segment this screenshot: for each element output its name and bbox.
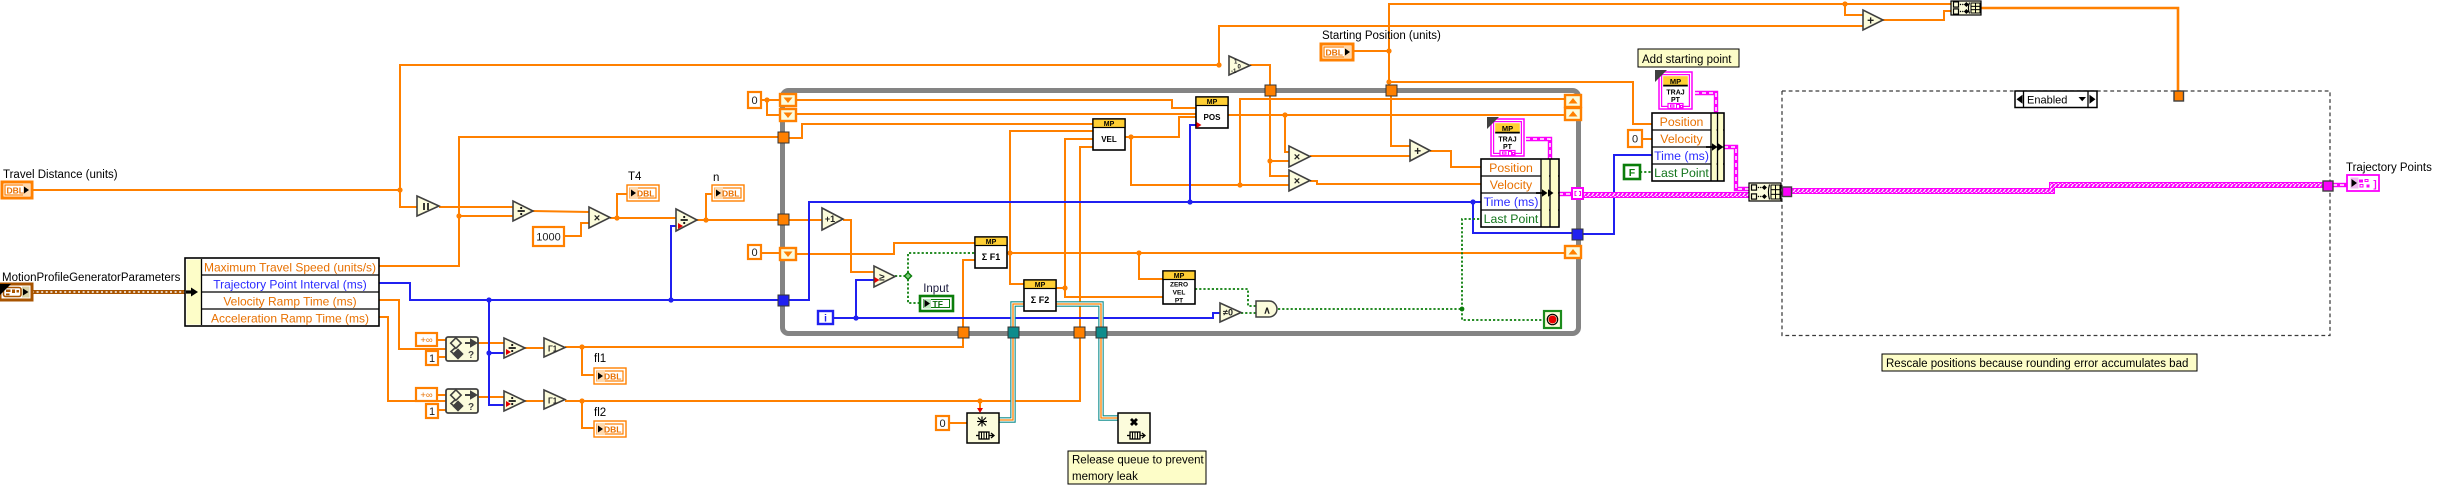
- node junction 0 const: [764, 97, 769, 102]
- abs node: [417, 196, 439, 216]
- svg-text:MP: MP: [986, 239, 997, 246]
- wire fl2 inside loop: [1080, 147, 1093, 327]
- constant 1 (first): [426, 351, 438, 365]
- indicator Trajectory Points: [2347, 175, 2379, 191]
- wire +inf1 to IRC1: [437, 339, 446, 341]
- svg-text:+: +: [1414, 144, 1421, 158]
- node junction sf1a: [1007, 250, 1012, 255]
- wire top y26 to + node: [1219, 26, 1863, 65]
- subvi TrajPt 1: [1491, 119, 1524, 156]
- node junction sp2: [1386, 79, 1391, 84]
- tunnel pink array out: [1572, 188, 1583, 199]
- tunnel sign top: [1265, 85, 1276, 96]
- svg-text:TF: TF: [933, 299, 943, 309]
- svg-text:Trajectory Points: Trajectory Points: [2346, 162, 2432, 174]
- wire SR1 to POS: [796, 100, 1196, 108]
- bundle by name 2 (outside): [1652, 113, 1724, 181]
- wire MaxSpeed from unbundle: [379, 137, 778, 266]
- svg-text:Velocity: Velocity: [1660, 132, 1703, 146]
- wire StartingPosition riser: [1389, 4, 1845, 88]
- wire blue to div2: [671, 226, 676, 300]
- wire div fl1 out: [525, 347, 544, 349]
- obtain queue node: [967, 413, 999, 443]
- wire green down to Input: [908, 279, 920, 303]
- svg-text:DBL: DBL: [604, 372, 621, 382]
- disable structure selector Enabled: [2015, 91, 2097, 108]
- node junction sp1: [1386, 48, 1391, 53]
- svg-text:DBL: DBL: [722, 189, 739, 199]
- svg-text:+1: +1: [825, 214, 835, 224]
- wire n inside loop to +1: [789, 219, 822, 221]
- wire SR3 to SigmaF1: [796, 243, 975, 254]
- wire div2 out n: [697, 219, 778, 221]
- in range and coerce 2: [446, 389, 478, 413]
- wire MaxSpeed to divide: [459, 215, 513, 217]
- release queue node: [1118, 413, 1150, 443]
- wire VEL out down: [1131, 137, 1289, 185]
- divide node n: [676, 209, 697, 231]
- wire fl2 to obtain queue: [979, 401, 981, 411]
- wire array out of loop: [1582, 192, 1749, 198]
- wire mult2 out to bundle Velocity: [1310, 181, 1481, 184]
- wire 0 const to SR1: [761, 99, 780, 101]
- wire F const dotted: [1640, 171, 1652, 173]
- node junction T4: [614, 215, 619, 220]
- wire sign node out: [1250, 65, 1270, 88]
- wire 0 to bundle2 Velocity: [1642, 138, 1652, 140]
- wire neq0 out dotted: [1241, 312, 1256, 314]
- wire to Trajectory Points indicator: [2333, 183, 2348, 187]
- indicator T4 DBL: [627, 185, 659, 201]
- wire queue to SigmaF2: [1013, 304, 1024, 327]
- build array 1: [1749, 183, 1781, 201]
- node junction blue pos: [1187, 199, 1192, 204]
- wire fl2 indicator branch: [582, 401, 594, 428]
- svg-text:+∞: +∞: [420, 335, 433, 346]
- disable structure border: [1782, 91, 2330, 336]
- constant 1000: [533, 227, 564, 246]
- node junction fl2: [579, 398, 584, 403]
- wire SigmaF1 out to SigmaF2: [1010, 253, 1024, 284]
- svg-text:Rescale positions because roun: Rescale positions because rounding error…: [1886, 358, 2188, 370]
- svg-text:0: 0: [751, 95, 757, 107]
- svg-text:MotionProfileGeneratorParamete: MotionProfileGeneratorParameters: [2, 272, 181, 284]
- svg-text:MP: MP: [1502, 124, 1513, 133]
- node green diamond: [904, 272, 911, 279]
- shift register up 3: [1565, 246, 1581, 258]
- wire ZeroVelPt out dotted: [1195, 289, 1256, 306]
- constant 0 SR3 init: [748, 245, 761, 259]
- increment node +1: [822, 208, 843, 230]
- tunnel fl2 bottom: [1074, 327, 1085, 338]
- in range and coerce 1: [446, 337, 478, 361]
- constant 0 bundle2: [1628, 130, 1642, 147]
- wire blue to div fl2: [489, 353, 504, 405]
- shift register up 2: [1565, 108, 1581, 120]
- subvi ZERO VEL PT: [1163, 271, 1195, 304]
- wire n branch: [706, 194, 712, 220]
- wire mult1 out: [1310, 155, 1410, 157]
- wire bundle2 to BuildArray1: [1724, 147, 1749, 189]
- round toward -inf 2: [544, 390, 565, 409]
- shift register down 3: [780, 248, 796, 260]
- sign node: [1229, 56, 1250, 75]
- svg-text:MP: MP: [1035, 282, 1046, 289]
- svg-text:DBL: DBL: [7, 186, 24, 196]
- wire fl1 indicator branch: [582, 347, 594, 375]
- node green junction: [1460, 307, 1465, 312]
- svg-text:MP: MP: [1174, 273, 1185, 280]
- multiply node 1 loop: [1289, 146, 1310, 167]
- svg-text:DBL: DBL: [1326, 48, 1343, 58]
- svg-text:Time (ms): Time (ms): [1654, 149, 1709, 163]
- svg-text:≠0: ≠0: [1223, 308, 1233, 318]
- wire VEL to SRup1: [1240, 99, 1565, 185]
- tunnel blue traj interval: [778, 295, 789, 306]
- svg-text:0: 0: [751, 247, 757, 259]
- svg-text:Velocity: Velocity: [1490, 178, 1533, 192]
- wire TrajPt2 to bundle2: [1695, 93, 1716, 113]
- svg-text:Position: Position: [1660, 115, 1704, 129]
- round toward -inf 1: [544, 338, 565, 357]
- wire AccelRamp to IRC2: [379, 317, 446, 401]
- label Add starting point: [1638, 49, 1739, 67]
- wire SigmaF1 long: [1007, 252, 1565, 254]
- tunnel disable right: [2323, 181, 2333, 191]
- node A junction travel distance: [397, 187, 402, 192]
- indicator Input TF: [920, 296, 953, 311]
- node junction blue1: [486, 297, 491, 302]
- stop button: [1544, 311, 1561, 328]
- constant 0 shift register init: [748, 92, 761, 108]
- wire blue down to tunnel: [1473, 202, 1572, 233]
- wire green to Last Point: [1462, 219, 1481, 309]
- wire to ZeroVelPt in1: [1139, 253, 1163, 279]
- wire SigmaF2 to VEL: [1065, 139, 1093, 288]
- indicator n DBL: [712, 185, 744, 201]
- svg-text:DBL: DBL: [604, 425, 621, 435]
- svg-text:Enabled: Enabled: [2027, 94, 2067, 106]
- svg-text:×: ×: [1294, 151, 1300, 163]
- svg-text:Starting Position (units): Starting Position (units): [1322, 30, 1441, 42]
- node junction blue bundle: [1470, 199, 1475, 204]
- constant +inf 1: [416, 333, 437, 346]
- divide node fl1: [504, 338, 525, 358]
- svg-text:×: ×: [594, 212, 600, 224]
- svg-text:?: ?: [468, 402, 474, 413]
- wire top to BuildArray2: [1845, 3, 1951, 5]
- tunnel blue time out: [1572, 229, 1583, 240]
- wire sign to mult2: [1270, 161, 1289, 176]
- svg-text:≥: ≥: [879, 273, 885, 284]
- constant +inf 2: [416, 388, 437, 401]
- wire i to gte: [856, 280, 874, 318]
- tunnel queue 2: [1096, 327, 1107, 338]
- node junction i: [853, 315, 858, 320]
- tunnel n: [778, 214, 789, 225]
- wire POS out: [1228, 114, 1565, 116]
- svg-text:Input: Input: [923, 283, 949, 295]
- node junction sign inside: [1267, 158, 1272, 163]
- multiply node: [589, 207, 610, 228]
- wire queue up: [999, 333, 1013, 420]
- wire blue inside riser: [789, 202, 1473, 300]
- node junction top: [1842, 1, 1847, 6]
- node junction sf2: [1062, 285, 1067, 290]
- node junction pos: [1282, 112, 1287, 117]
- svg-text:×: ×: [1294, 175, 1300, 187]
- wire VEL out to POS: [1125, 117, 1196, 137]
- shift register down 2: [780, 109, 796, 121]
- subvi VEL: [1093, 119, 1125, 150]
- divide node T4 chain: [513, 201, 533, 221]
- svg-text:MP: MP: [1104, 121, 1115, 128]
- wire MotionProfileGeneratorParameters cluster: [32, 290, 186, 294]
- svg-text:1: 1: [429, 406, 435, 418]
- wire queue to release: [1101, 327, 1118, 418]
- wire bundle1 to tunnel: [1559, 192, 1572, 196]
- divide node fl2: [504, 391, 525, 411]
- wire Travel Distance to abs: [400, 190, 417, 207]
- svg-text:i: i: [824, 314, 827, 325]
- svg-text:MP: MP: [1670, 77, 1681, 86]
- not equal zero node: [1220, 303, 1241, 322]
- svg-text:Acceleration Ramp Time (ms): Acceleration Ramp Time (ms): [211, 312, 369, 326]
- svg-text:Γ1: Γ1: [548, 397, 558, 406]
- svg-text:∧: ∧: [1263, 306, 1270, 317]
- label Rescale positions: [1882, 354, 2197, 371]
- wire 0 const to SR3: [761, 252, 780, 254]
- wire SigmaF2 to ZeroVelPt: [1065, 288, 1163, 297]
- svg-text:n: n: [713, 172, 719, 184]
- wire +1 to gte: [843, 220, 874, 272]
- svg-text:Maximum Travel Speed (units/s): Maximum Travel Speed (units/s): [204, 261, 376, 275]
- wire T4 branch: [617, 194, 627, 218]
- tunnel starting position top: [1386, 85, 1397, 96]
- wire mult out / T4: [610, 217, 676, 219]
- svg-text:Last Point: Last Point: [1484, 212, 1539, 226]
- svg-text:0: 0: [939, 418, 945, 430]
- svg-text:ZERO: ZERO: [1170, 281, 1188, 288]
- greater or equal node: [874, 266, 895, 287]
- wire IRC2 out: [478, 396, 504, 398]
- svg-text:1000: 1000: [536, 231, 560, 243]
- add node top: [1863, 10, 1883, 30]
- wire Travel Distance riser to top: [400, 65, 1219, 190]
- subvi TrajPt 2: [1659, 72, 1692, 109]
- svg-text:-1: -1: [1231, 69, 1237, 75]
- svg-text:+: +: [1867, 13, 1874, 27]
- terminal MotionProfileGeneratorParameters cluster control: [0, 284, 32, 300]
- svg-text:?: ?: [468, 350, 474, 361]
- node junction vel2: [1237, 182, 1242, 187]
- wire div1 out: [533, 211, 589, 212]
- wire top to plus2: [1845, 4, 1863, 15]
- tunnel disable orange top: [2174, 91, 2184, 101]
- svg-text:DBL: DBL: [637, 189, 654, 199]
- svg-text:Time (ms): Time (ms): [1484, 195, 1539, 209]
- unbundle by name MotionProfile: [185, 258, 379, 326]
- constant 1 (second): [426, 404, 438, 418]
- terminal Starting Position DBL control: [1321, 44, 1353, 60]
- node junction fl2 queue: [977, 398, 982, 403]
- svg-text:+∞: +∞: [420, 390, 433, 401]
- svg-text:Release queue to prevent: Release queue to prevent: [1072, 455, 1205, 467]
- wire +inf2 to IRC2: [437, 394, 446, 396]
- wire blue to bundle Time: [1473, 201, 1481, 203]
- wire Travel Distance main: [32, 189, 400, 191]
- wire green to stop: [1462, 309, 1544, 320]
- node junction vel: [1128, 134, 1133, 139]
- svg-text:T4: T4: [628, 171, 642, 183]
- wire SigmaF1 out to VEL: [1010, 131, 1093, 253]
- svg-text:TRAJ: TRAJ: [1666, 90, 1684, 97]
- wire SigmaF2 out: [1056, 287, 1065, 289]
- subvi SigmaF1: [975, 237, 1007, 268]
- terminal i iteration: [818, 311, 833, 324]
- add node loop: [1410, 140, 1430, 161]
- wire one2 to IRC2: [438, 409, 446, 411]
- wire SP to bundle2 Position: [1389, 82, 1652, 124]
- svg-text:TRAJ: TRAJ: [1498, 137, 1516, 144]
- while loop border: [783, 91, 1579, 334]
- terminal Travel Distance DBL control: [2, 182, 32, 198]
- wire POS to mult1: [1285, 115, 1289, 152]
- wire tunnel2 to plus: [1391, 96, 1410, 146]
- node junction y65/y26: [1216, 62, 1221, 67]
- svg-text:POS: POS: [1204, 113, 1222, 122]
- wire plus2 out: [1883, 11, 1951, 20]
- constant 0 queue size: [936, 416, 949, 430]
- svg-text:Last Point: Last Point: [1654, 166, 1709, 180]
- subvi SigmaF2: [1024, 280, 1056, 311]
- wire abs out: [439, 206, 513, 208]
- svg-text:Add starting point: Add starting point: [1642, 54, 1732, 66]
- wire 0 const to SR2: [767, 100, 780, 115]
- svg-text:F: F: [1629, 167, 1636, 179]
- wire IRC1 out: [478, 342, 504, 344]
- wire blue outside loop: [1582, 155, 1652, 234]
- wire fl1 inside loop: [963, 260, 975, 327]
- svg-text:Position: Position: [1489, 161, 1533, 175]
- tunnel disable magenta: [1783, 187, 1792, 197]
- wire fl2 long: [565, 333, 1080, 401]
- svg-text:Γ1: Γ1: [548, 345, 558, 354]
- wire MaxSpeed inside loop: [789, 124, 1093, 138]
- svg-text:✖: ✖: [1129, 417, 1138, 429]
- svg-text:fl1: fl1: [594, 353, 606, 365]
- wire VelocityRamp to IRC1: [379, 300, 446, 349]
- label Release queue: [1068, 451, 1206, 484]
- svg-text:Velocity Ramp Time (ms): Velocity Ramp Time (ms): [223, 295, 356, 309]
- indicator fl1 DBL: [594, 368, 626, 384]
- svg-text:VEL: VEL: [1173, 289, 1186, 296]
- bundle by name 1 (in loop): [1481, 159, 1559, 227]
- build array 2: [1951, 1, 1981, 15]
- subvi POS: [1196, 97, 1228, 128]
- constant False: [1624, 165, 1640, 179]
- svg-text:Travel Distance (units): Travel Distance (units): [3, 169, 118, 181]
- node junction n: [703, 217, 708, 222]
- wire TrajInterval from unbundle: [379, 283, 778, 300]
- indicator fl2 DBL: [594, 421, 626, 437]
- wire gte out dotted: [895, 275, 906, 277]
- wire queue from SigmaF2: [1056, 304, 1101, 333]
- node junction maxspeed: [456, 213, 461, 218]
- multiply node 2 loop: [1289, 170, 1310, 191]
- wire array through disable structure: [1791, 185, 2327, 191]
- svg-text:Σ F2: Σ F2: [1031, 295, 1049, 305]
- wire SR2 to POS: [796, 113, 1196, 115]
- svg-text:memory leak: memory leak: [1072, 471, 1138, 483]
- wire plus out to bundle Position: [1430, 151, 1481, 167]
- shift register up 1: [1565, 95, 1581, 107]
- node junction sf1b: [1136, 250, 1141, 255]
- wire fl1 long: [565, 333, 963, 347]
- wire sign tunnel riser: [1270, 96, 1289, 161]
- wire blue to div fl1: [489, 300, 504, 353]
- wire div fl2 out: [525, 400, 544, 402]
- svg-text:1: 1: [429, 353, 435, 365]
- wire green diamond up to SigmaF1: [908, 253, 975, 273]
- svg-text:]: ]: [2373, 180, 2376, 191]
- wire one1 to IRC1: [438, 356, 446, 358]
- node junction blue3: [668, 297, 673, 302]
- wire 0 to obtain queue: [949, 422, 967, 424]
- and node: [1256, 301, 1277, 317]
- tunnel queue 1: [1008, 327, 1019, 338]
- svg-text:VEL: VEL: [1101, 135, 1117, 144]
- node junction fl1: [579, 344, 584, 349]
- wire i terminal: [833, 313, 1220, 318]
- wire TrajPt1 to bundle1: [1526, 139, 1550, 159]
- wire and out dotted: [1278, 308, 1462, 310]
- svg-text:PT: PT: [1175, 297, 1183, 304]
- svg-text:0: 0: [1632, 133, 1638, 145]
- tunnel max speed: [778, 132, 789, 143]
- wire StartingPosition: [1353, 50, 1389, 52]
- svg-text:MP: MP: [1207, 99, 1218, 106]
- shift register down 1: [780, 94, 796, 106]
- wire 1000 const: [564, 223, 589, 236]
- svg-text:Σ F1: Σ F1: [982, 252, 1000, 262]
- tunnel fl1 bottom: [958, 327, 969, 338]
- svg-text:fl2: fl2: [594, 407, 606, 419]
- svg-text:Trajectory Point Interval (ms): Trajectory Point Interval (ms): [213, 278, 367, 292]
- node junction blue2: [486, 350, 491, 355]
- wire blue to POS: [1190, 125, 1196, 202]
- wire BuildArray2 out array: [1981, 8, 2178, 91]
